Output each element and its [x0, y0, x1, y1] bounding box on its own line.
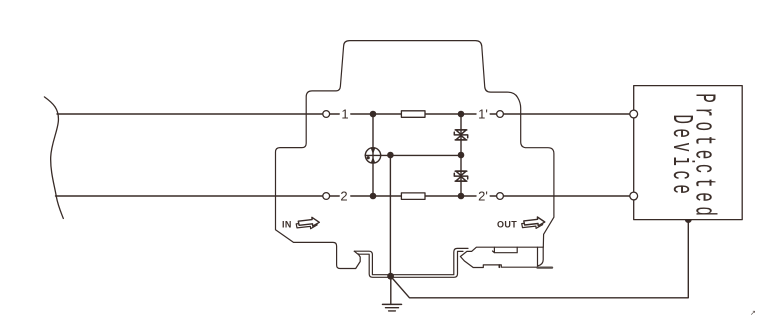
OUT arrow	[522, 217, 545, 228]
wire line2 mid segment c	[425, 195, 476, 197]
label OUT	[497, 219, 517, 229]
TVS diode D1 (bidirectional)	[454, 130, 467, 140]
earth wire diagonal	[390, 220, 688, 298]
terminal 2 circle	[323, 193, 330, 200]
clip bottom notch	[498, 265, 500, 267]
cable break curve	[44, 97, 63, 218]
GDT middle electrode wire	[365, 154, 461, 156]
ground wire vertical	[390, 276, 392, 304]
wire line1 mid segment c	[425, 113, 476, 115]
wire line1 left segment	[57, 113, 323, 115]
svg-text:2: 2	[340, 189, 347, 204]
TVS diode D2 (bidirectional)	[454, 171, 467, 181]
DIN rail chain inner	[354, 251, 463, 277]
protected device terminal bottom	[630, 192, 638, 200]
wire line1 right gap segment	[490, 113, 496, 115]
module body lower edge curve	[538, 247, 544, 266]
svg-text:IN: IN	[282, 219, 292, 229]
svg-text:OUT: OUT	[497, 219, 517, 229]
wire line2 to protected device	[503, 195, 629, 197]
svg-text:1: 1	[341, 107, 348, 122]
DIN slider clip	[460, 247, 537, 267]
IN arrow	[296, 217, 319, 228]
svg-text:↗: ↗	[750, 310, 756, 317]
earth branch vertical wire	[389, 155, 391, 276]
GDT gas discharge tube	[365, 148, 380, 164]
wire line1 mid segment b	[351, 113, 402, 115]
resistor R2	[401, 193, 425, 200]
label IN	[282, 219, 292, 229]
protected device terminal top	[630, 110, 638, 118]
DIN rail chain outer	[354, 248, 468, 274]
label Protected Device	[665, 93, 720, 220]
TVS branch vertical wire	[460, 114, 462, 196]
terminal 2' circle	[497, 193, 504, 200]
svg-text:Device: Device	[665, 114, 697, 198]
svg-text:1': 1'	[478, 107, 488, 122]
wire line2 mid segment b	[351, 195, 402, 197]
wire line1 to protected device	[503, 113, 629, 115]
svg-text:2': 2'	[478, 189, 488, 204]
wire line2 mid segment a	[330, 195, 339, 197]
ground symbol	[383, 304, 402, 311]
protected device box	[634, 86, 743, 220]
rail edge thick bar	[537, 267, 552, 269]
GDT branch vertical wire	[372, 114, 374, 196]
wire line1 mid segment a	[330, 113, 339, 115]
module outline	[276, 41, 554, 269]
terminal 1 circle	[323, 111, 330, 118]
terminal 1' circle	[497, 111, 504, 118]
junction node dots	[370, 111, 377, 118]
resistor R1	[401, 111, 425, 118]
clip top slot	[493, 247, 518, 253]
wire line2 right gap segment	[490, 195, 496, 197]
wire line2 left segment	[56, 195, 323, 197]
